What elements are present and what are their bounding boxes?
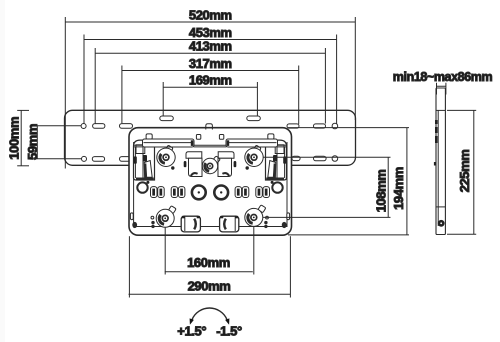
extension line 453 left — [83, 35, 85, 124]
big ring right — [214, 186, 228, 200]
dimension 225mm tick top — [447, 109, 476, 111]
plate hook slot right — [247, 116, 260, 121]
dimension 520mm line — [65, 21, 355, 23]
big ring left dot — [198, 191, 200, 193]
dimension 108mm line — [387, 157, 389, 217]
right claw crescent — [222, 173, 229, 176]
nut pair B left — [171, 187, 185, 198]
tiny circle right — [266, 216, 269, 219]
tick 100mm top — [17, 109, 29, 111]
left claw top bar — [186, 152, 202, 159]
svg-text:413mm: 413mm — [189, 39, 232, 54]
dimension 18-86 ticks — [437, 83, 446, 95]
right hook wedge dark edge — [273, 164, 276, 178]
svg-text:108mm: 108mm — [374, 170, 389, 213]
middle ring left — [137, 182, 147, 192]
dimension 413mm line — [95, 52, 325, 54]
extension line 317 right — [298, 66, 300, 125]
big ring left — [192, 186, 206, 200]
svg-text:+1.5°: +1.5° — [177, 324, 206, 339]
rail bar right inner line — [227, 142, 277, 144]
dimension 317mm line — [122, 70, 299, 72]
left hook module foot dark — [136, 178, 154, 180]
left hook wedge — [144, 161, 152, 178]
left claw dark pin — [184, 161, 187, 167]
side view divider bottom — [436, 206, 445, 208]
extension 290 right — [289, 236, 291, 297]
tilt arc — [192, 308, 227, 320]
corner oval bottom-right — [282, 222, 287, 228]
side view hook marks — [435, 120, 438, 124]
plate hole circle top-left — [81, 124, 86, 129]
dimension 59mm line — [36, 126, 38, 159]
knob bottom-left — [156, 206, 176, 228]
edge oval left — [130, 213, 133, 220]
rail bar left end cap — [191, 140, 194, 146]
tiny latch right — [264, 221, 267, 228]
svg-text:min18~max86mm: min18~max86mm — [393, 70, 493, 84]
plate slot top-left 1 — [93, 124, 105, 129]
tick 100mm bottom — [17, 165, 29, 167]
svg-text:100mm: 100mm — [7, 117, 22, 160]
middle ring right — [272, 182, 282, 192]
nut pair A left — [151, 187, 165, 198]
rail bar right nub — [219, 135, 223, 140]
rail bar left inner line — [144, 142, 194, 144]
side view divider top — [436, 109, 445, 111]
right hook module pin dark — [273, 155, 277, 162]
knob top-right — [245, 145, 263, 166]
right hook module piston — [275, 145, 284, 154]
bracket body — [129, 128, 292, 236]
dimension 194mm line — [406, 128, 408, 235]
plate slot bottom-left 2 — [120, 157, 133, 162]
svg-text:169mm: 169mm — [189, 73, 232, 88]
dimension 100mm line — [20, 110, 22, 165]
nut pair B right — [235, 187, 249, 198]
wall plate — [65, 110, 356, 165]
dimension 453mm line — [84, 39, 337, 41]
right hook wedge — [268, 161, 276, 178]
left hook module pin dark — [143, 155, 147, 162]
clip left — [181, 216, 200, 232]
svg-text:520mm: 520mm — [189, 8, 232, 23]
side view inner line — [437, 110, 439, 226]
small dot right — [271, 181, 274, 184]
side view body — [436, 88, 445, 235]
dark mark inner edge left — [134, 144, 136, 152]
extension line 317 left — [121, 66, 123, 124]
extension line 520 right — [354, 17, 356, 120]
rail bar right — [226, 139, 278, 147]
extension 160 right — [253, 227, 255, 275]
plate hole circle top-right — [332, 123, 338, 129]
svg-text:225mm: 225mm — [457, 150, 472, 193]
dimension 290mm line — [129, 293, 291, 295]
rail bar right end cap — [227, 140, 230, 146]
left hook module tab — [146, 134, 152, 139]
knob bottom-right — [245, 205, 266, 227]
leader 59mm bottom — [33, 158, 82, 160]
claw dot left — [171, 166, 174, 169]
left hook module channel — [135, 147, 143, 178]
extension line 413 right — [324, 48, 326, 124]
rail bar left — [143, 139, 195, 147]
leader knob bottom-right — [263, 216, 391, 218]
extension 290 left — [128, 236, 130, 297]
extension line 520 left — [64, 17, 66, 169]
bracket top center tab — [206, 124, 213, 130]
extension line 453 right — [336, 35, 338, 124]
knob top-left — [157, 145, 175, 166]
tilt arrow left — [190, 318, 194, 324]
left claw crescent — [191, 173, 198, 176]
svg-text:317mm: 317mm — [189, 56, 232, 71]
svg-text:160mm: 160mm — [187, 255, 230, 270]
left edge shading — [0, 0, 5, 342]
tilt arrow right — [225, 318, 229, 324]
svg-text:194mm: 194mm — [391, 167, 406, 210]
leader bracket bottom right — [288, 234, 409, 236]
right claw foot — [218, 158, 232, 176]
right hook module edge mark dark — [283, 156, 286, 163]
left hook module piston — [136, 145, 145, 154]
left hook module body — [134, 140, 155, 180]
extension line 169 left — [162, 82, 164, 116]
extension line 169 right — [256, 82, 258, 116]
right claw dark pin — [234, 161, 237, 167]
right hook module body — [266, 140, 287, 180]
plate slot top-right 1 — [287, 124, 299, 128]
leader knob top-right — [263, 156, 390, 158]
right hook module channel — [277, 147, 285, 178]
dimension 169mm line — [163, 86, 257, 88]
dimension 160mm line — [165, 271, 253, 273]
right hook module tab — [268, 134, 274, 139]
plate hole circle bottom-left — [82, 156, 87, 161]
left hook wedge dark edge — [144, 164, 147, 178]
rail bar left nub — [196, 135, 200, 140]
right claw top bar — [218, 152, 234, 159]
dimension 225mm tick bottom — [447, 233, 476, 235]
rail connecting lines — [134, 145, 286, 147]
plate slot bottom-left 1 — [92, 157, 104, 162]
plate slot top-left 2 — [120, 124, 133, 129]
plate slot top-right 2 — [314, 124, 326, 128]
extension 160 left — [164, 227, 166, 274]
bracket inner edge left — [133, 142, 135, 227]
plate hole circle bottom-right — [332, 156, 338, 162]
nut pair A right — [256, 187, 270, 198]
leader 59mm top — [33, 125, 81, 127]
corner oval bottom-left — [132, 222, 137, 228]
tiny circle left — [151, 216, 154, 219]
clip right — [220, 216, 239, 232]
plate slot bottom-right 1 — [314, 156, 327, 161]
svg-text:-1.5°: -1.5° — [216, 324, 242, 339]
left hook module edge mark dark — [134, 156, 137, 163]
dark mark inner edge right — [283, 144, 285, 152]
bracket inner bottom line — [134, 226, 287, 228]
knob center — [202, 156, 220, 174]
claw dot right — [246, 166, 249, 169]
left claw foot — [189, 158, 203, 176]
tiny latch left — [151, 221, 154, 228]
extension line 413 left — [94, 48, 96, 124]
big ring right dot — [220, 191, 222, 193]
plate hook slot left — [160, 116, 174, 121]
dimension 225mm line — [473, 110, 475, 234]
plate slot bottom-right 0 — [292, 156, 300, 160]
side view knob — [438, 220, 445, 227]
small dot left — [146, 181, 149, 184]
edge oval right — [287, 213, 290, 220]
right hook module foot dark — [266, 178, 284, 180]
svg-text:290mm: 290mm — [188, 279, 231, 294]
bracket inner edge right — [286, 142, 288, 227]
leader bracket top right — [288, 127, 409, 129]
